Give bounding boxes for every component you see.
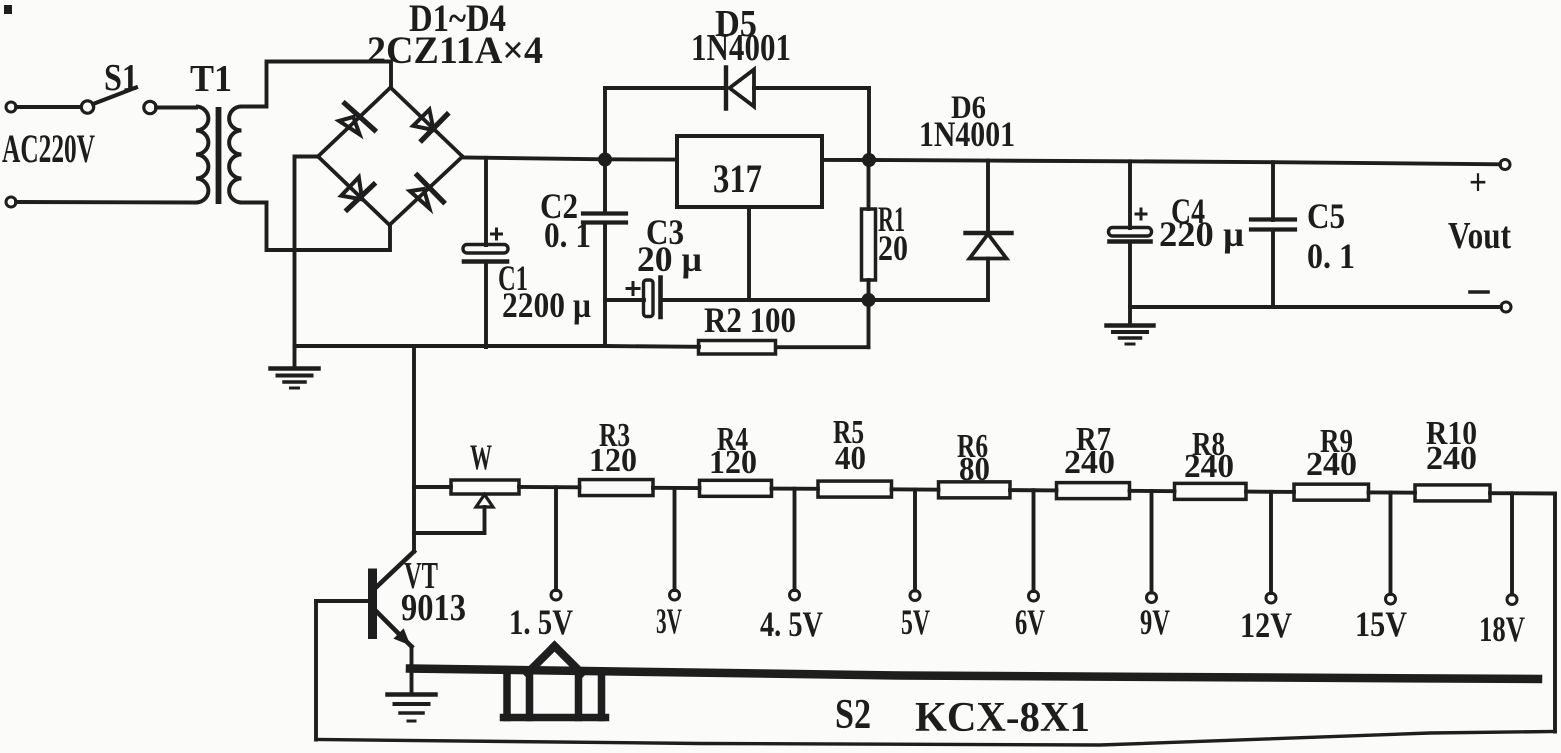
svg-text:W: W bbox=[470, 437, 492, 477]
wire tap 6V bbox=[1032, 490, 1036, 591]
diode D5 cathode bar bbox=[724, 68, 728, 109]
svg-text:T1: T1 bbox=[190, 58, 232, 100]
capacitor C4 minus plate bbox=[1110, 239, 1151, 244]
wire drop from ground rail bbox=[412, 346, 416, 552]
wire main rail left section bbox=[463, 158, 678, 160]
selector S2 wiper outer left leg bbox=[503, 671, 511, 718]
capacitor C2 plate 2 bbox=[583, 220, 626, 224]
wire chain to R8 bbox=[1130, 489, 1175, 493]
selector S2 wiper outer right leg bbox=[598, 671, 606, 718]
resistor R4 body bbox=[700, 480, 772, 496]
transistor VT emitter arrow bbox=[394, 629, 409, 644]
diode D1 (upper-left) bbox=[345, 104, 375, 130]
diode D6 triangle bbox=[970, 234, 1007, 259]
wire R1 top bbox=[867, 160, 871, 209]
svg-text:+: + bbox=[1469, 162, 1487, 204]
terminal 1. 5V bbox=[551, 590, 561, 600]
scan mark top-left corner bbox=[4, 5, 12, 14]
diode D2 (upper-right) bbox=[422, 115, 447, 141]
wire main rail right section bbox=[822, 160, 1500, 164]
wire chain to R4 bbox=[653, 486, 700, 490]
wire C2 top bbox=[603, 160, 607, 213]
transistor VT base bar bbox=[368, 569, 377, 640]
resistor R7 body bbox=[1057, 483, 1130, 499]
wire C4 top bbox=[1128, 161, 1132, 228]
selector S2 wiper house left wall bbox=[528, 646, 555, 673]
wire C5 top bbox=[1271, 162, 1275, 220]
svg-text:240: 240 bbox=[1184, 448, 1234, 485]
svg-text:2200 µ: 2200 µ bbox=[502, 285, 591, 325]
wire output minus rail bbox=[1130, 305, 1501, 309]
wire base down left side bbox=[314, 601, 318, 740]
svg-text:9V: 9V bbox=[1140, 602, 1170, 642]
wire D5 right vertical bbox=[867, 88, 871, 160]
C4 polarity + bbox=[1136, 213, 1146, 216]
svg-text:40: 40 bbox=[835, 440, 866, 477]
wire C5 bottom bbox=[1271, 231, 1275, 307]
bridge arm top-left bbox=[318, 88, 391, 157]
selector S2 wiper bottom bar bbox=[504, 714, 606, 722]
wire bottom return line bbox=[316, 732, 1555, 746]
resistor R3 body bbox=[580, 480, 654, 496]
wire D5 left vertical bbox=[603, 88, 607, 160]
terminal 3V bbox=[670, 590, 680, 600]
capacitor C1 minus plate bbox=[464, 259, 507, 264]
junction output node bbox=[862, 153, 876, 167]
selector S2 wiper inner right leg bbox=[575, 672, 583, 718]
wire ADJ line left bbox=[605, 298, 644, 302]
potentiometer W wiper arrow bbox=[476, 495, 493, 508]
svg-text:2CZ11A×4: 2CZ11A×4 bbox=[367, 29, 543, 72]
wire chain to R9 bbox=[1246, 490, 1294, 494]
svg-text:R2 100: R2 100 bbox=[704, 300, 796, 340]
wire ground rail bbox=[295, 344, 700, 349]
selector S2 common bar bbox=[410, 669, 1538, 680]
wire secondary bottom to bridge bbox=[242, 203, 391, 251]
svg-text:9013: 9013 bbox=[401, 587, 466, 629]
ground below emitter bbox=[410, 673, 414, 693]
svg-text:1N4001: 1N4001 bbox=[691, 27, 791, 69]
selector S2 wiper inner left leg bbox=[526, 672, 534, 718]
wire tap 9V bbox=[1150, 491, 1154, 593]
bridge arm bottom-right bbox=[390, 157, 463, 226]
diode D5 triangle bbox=[730, 70, 755, 107]
wire chain to right corner bbox=[1490, 491, 1555, 495]
wire switch to transformer bbox=[156, 106, 196, 110]
wire chain right corner down bbox=[1553, 494, 1557, 732]
wire R1 bottom bbox=[867, 280, 871, 300]
wire C4 bottom bbox=[1128, 243, 1132, 307]
svg-text:1N4001: 1N4001 bbox=[919, 114, 1015, 154]
svg-text:0. 1: 0. 1 bbox=[1307, 236, 1355, 276]
junction input node bbox=[598, 153, 612, 167]
transistor VT emitter bbox=[377, 612, 412, 647]
wire D6 cathode bbox=[986, 161, 990, 233]
wire tap 15V bbox=[1389, 493, 1393, 594]
capacitor C3 plus plate bbox=[644, 280, 654, 317]
svg-text:S2: S2 bbox=[835, 692, 871, 738]
wire tap 4. 5V bbox=[793, 489, 797, 590]
wire chain to R7 bbox=[1010, 488, 1057, 492]
svg-text:S1: S1 bbox=[104, 57, 138, 99]
svg-text:Vout: Vout bbox=[1448, 215, 1511, 257]
svg-text:5V: 5V bbox=[901, 602, 930, 642]
junction ADJ node bbox=[862, 293, 876, 307]
terminal 15V bbox=[1386, 594, 1396, 604]
capacitor C1 plus plate bbox=[463, 245, 508, 254]
svg-text:240: 240 bbox=[1306, 446, 1357, 483]
wire tap 1. 5V bbox=[554, 487, 558, 590]
potentiometer W body bbox=[451, 480, 519, 494]
wire C1 bottom bbox=[484, 263, 488, 347]
selector S2 wiper house right wall bbox=[555, 646, 582, 673]
svg-text:120: 120 bbox=[589, 442, 637, 479]
wire W left bbox=[414, 485, 451, 489]
wire D5 top left bbox=[605, 86, 726, 90]
svg-text:20: 20 bbox=[878, 228, 908, 268]
wire D6 anode bbox=[986, 259, 990, 301]
svg-text:6V: 6V bbox=[1015, 602, 1045, 642]
switch S1 contact right bbox=[144, 101, 156, 113]
diode D4 (lower-right) bbox=[417, 175, 443, 202]
diode D6 cathode bar bbox=[966, 231, 1012, 235]
wire base left bbox=[316, 599, 368, 603]
label minus bbox=[1470, 290, 1488, 294]
wire chain to R3 bbox=[519, 485, 580, 489]
resistor R9 body bbox=[1294, 484, 1369, 500]
wire D6 bottom line bbox=[869, 298, 989, 302]
capacitor C4 plus plate bbox=[1109, 228, 1152, 237]
transformer T1 core bbox=[216, 107, 222, 204]
wire chain to R10 bbox=[1369, 490, 1416, 494]
switch S1 blade bbox=[93, 88, 136, 105]
wire R2 node up bbox=[867, 300, 871, 347]
wire ADJ line right bbox=[662, 298, 869, 302]
ground below bridge bbox=[293, 346, 297, 367]
capacitor C5 plate 2 bbox=[1251, 227, 1295, 231]
wire secondary top to bridge bbox=[242, 62, 392, 107]
diode D3 (lower-left) bbox=[347, 185, 374, 210]
resistor R2 body bbox=[699, 341, 776, 355]
capacitor C3 minus plate bbox=[658, 278, 663, 318]
svg-text:220 µ: 220 µ bbox=[1159, 214, 1244, 254]
transformer T1 secondary winding bbox=[229, 107, 241, 203]
wire 317 ADJ pin bbox=[747, 207, 751, 300]
svg-text:1. 5V: 1. 5V bbox=[509, 602, 573, 642]
svg-text:120: 120 bbox=[709, 444, 757, 481]
wire tap 18V bbox=[1510, 493, 1514, 594]
resistor R1 body bbox=[862, 209, 876, 280]
resistor R10 body bbox=[1415, 485, 1490, 501]
svg-text:15V: 15V bbox=[1355, 604, 1407, 644]
terminal 18V bbox=[1507, 595, 1517, 605]
wire chain to R6 bbox=[892, 487, 939, 491]
switch S1 contact left bbox=[81, 101, 93, 113]
wire chain to R5 bbox=[772, 487, 819, 491]
wire tap 3V bbox=[673, 488, 677, 590]
output terminal minus bbox=[1501, 302, 1511, 312]
svg-text:18V: 18V bbox=[1479, 609, 1525, 649]
wire ground rail right of R2 bbox=[776, 345, 869, 349]
wire C4 ground stub bbox=[1128, 307, 1132, 324]
wire C1 top bbox=[484, 158, 488, 245]
regulator U1 317 box bbox=[677, 136, 822, 207]
svg-text:240: 240 bbox=[1426, 440, 1477, 477]
svg-text:C5: C5 bbox=[1307, 196, 1345, 236]
svg-text:12V: 12V bbox=[1240, 605, 1292, 645]
wire AC top to switch bbox=[16, 105, 81, 109]
svg-text:20 µ: 20 µ bbox=[637, 239, 702, 279]
svg-text:317: 317 bbox=[713, 156, 762, 201]
terminal 4. 5V bbox=[790, 590, 800, 600]
svg-text:0. 1: 0. 1 bbox=[544, 215, 591, 255]
wire W wiper bbox=[414, 507, 485, 533]
resistor R8 body bbox=[1175, 483, 1247, 499]
svg-text:KCX-8X1: KCX-8X1 bbox=[915, 695, 1090, 741]
output terminal plus bbox=[1500, 160, 1510, 170]
AC input terminal bottom bbox=[6, 197, 16, 207]
wire D5 top right bbox=[754, 86, 869, 90]
C1 polarity + bbox=[492, 233, 502, 236]
resistor R5 body bbox=[818, 481, 892, 497]
svg-text:80: 80 bbox=[959, 451, 990, 488]
resistor R6 body bbox=[939, 482, 1011, 498]
svg-text:AC220V: AC220V bbox=[2, 126, 95, 171]
capacitor C5 plate 1 bbox=[1251, 217, 1295, 221]
transformer T1 primary winding bbox=[196, 107, 208, 203]
wire tap 5V bbox=[913, 489, 917, 590]
C3 polarity + bbox=[627, 287, 639, 290]
wire tap 12V bbox=[1269, 492, 1273, 593]
svg-text:3V: 3V bbox=[656, 601, 682, 641]
svg-text:240: 240 bbox=[1064, 444, 1115, 481]
wire C2 bottom bbox=[603, 225, 607, 347]
wire AC bottom to transformer bbox=[16, 200, 196, 204]
capacitor C2 plate 1 bbox=[583, 211, 626, 215]
AC input terminal top bbox=[6, 102, 16, 112]
wire emitter down bbox=[410, 647, 414, 674]
svg-text:4. 5V: 4. 5V bbox=[760, 604, 823, 644]
bridge arm bottom-left bbox=[318, 157, 390, 226]
terminal 12V bbox=[1266, 593, 1276, 603]
transistor VT collector bbox=[377, 552, 414, 587]
terminal 6V bbox=[1029, 591, 1039, 601]
wire bridge left corner to ground bbox=[295, 157, 319, 349]
bridge arm top-right bbox=[391, 88, 463, 157]
ground below C4 bbox=[1107, 323, 1154, 328]
terminal 5V bbox=[910, 591, 920, 601]
terminal 9V bbox=[1147, 593, 1157, 603]
